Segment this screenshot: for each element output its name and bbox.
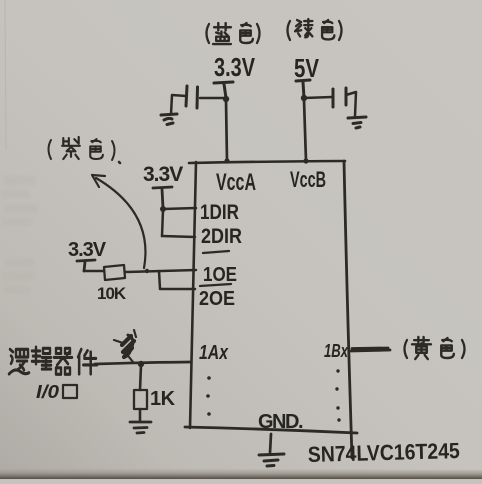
svg-text:3.3V: 3.3V [214, 52, 255, 82]
dots below 1Ax [206, 376, 211, 416]
svg-text:3.3V: 3.3V [68, 239, 107, 261]
wire terminal to resistor [84, 270, 104, 273]
junction node at blue supply [223, 96, 229, 102]
arrow to purple wire [96, 178, 145, 268]
svg-text:1Ax: 1Ax [199, 342, 229, 364]
wire blue supply to VCCA pin [226, 100, 227, 161]
wire junction to left capacitor [200, 97, 226, 100]
label (紫色) [49, 137, 121, 163]
wire junction to resistor 1K [140, 365, 141, 390]
capacitor C1 (left decoupling) [186, 86, 198, 108]
IC right edge [344, 161, 352, 458]
wire branch down to 2OE [159, 271, 195, 289]
svg-text:I/0: I/0 [36, 382, 59, 402]
junction node at 1DIR wire [160, 206, 166, 212]
IC bottom edge [185, 427, 357, 433]
wire GND pin to ground [270, 434, 271, 453]
svg-text:GND.: GND. [258, 411, 303, 433]
label 逻辑器件 [9, 347, 97, 374]
svg-text:2OE: 2OE [199, 288, 235, 310]
wire resistor to 1OE pin [125, 270, 196, 272]
faint bleed-through marks left side [2, 176, 38, 294]
IC left edge [190, 162, 196, 428]
junction node at VCCA [224, 158, 229, 163]
svg-text:VccA: VccA [216, 169, 256, 196]
wire to 2DIR pin [162, 236, 195, 237]
wire to 1DIR pin [163, 208, 196, 209]
label 口 [63, 385, 77, 398]
resistor R 10K body [104, 265, 125, 280]
svg-text:SN74LVC16T245: SN74LVC16T245 [307, 438, 460, 467]
junction node at green supply [301, 95, 307, 101]
svg-text:3.3V: 3.3V [143, 163, 183, 186]
svg-text:1Bx: 1Bx [324, 341, 349, 361]
wire junction to right capacitor [304, 97, 332, 98]
overline of 1OE [203, 251, 229, 253]
svg-text:1OE: 1OE [203, 264, 237, 286]
wire down to 2DIR level [162, 210, 163, 236]
IC top edge [189, 161, 345, 163]
wire capacitor to ground [346, 92, 356, 116]
overline of 2OE [200, 284, 231, 286]
ground (IC GND) [259, 454, 284, 466]
power terminal 3.3V (DIR) [153, 187, 172, 208]
ground (1K resistor) [130, 422, 151, 433]
resistor R 1K body [134, 390, 147, 409]
ground (right capacitor) [348, 117, 366, 128]
svg-text:1DIR: 1DIR [200, 201, 239, 224]
junction node at VCCB [303, 158, 308, 163]
wire 1Bx pin [351, 348, 390, 351]
power terminal 3.3V (OE) [77, 260, 95, 271]
label (绿色) [288, 19, 342, 40]
svg-text:1K: 1K [150, 388, 176, 410]
svg-text:VccB: VccB [290, 167, 326, 192]
svg-text:10K: 10K [97, 284, 127, 303]
junction node on OE wire [145, 269, 149, 273]
dots below 1Bx [335, 369, 340, 421]
ground (left capacitor) [161, 114, 177, 125]
arrowhead [92, 175, 105, 187]
label (黄色) [405, 337, 465, 359]
scribble mark above wire [114, 330, 136, 362]
junction node on 1Ax wire [138, 361, 144, 367]
svg-text:5V: 5V [294, 53, 320, 83]
faint paper crease left [5, 0, 6, 150]
power terminal 3.3V (blue) [214, 82, 233, 98]
power terminal 5V (green) [296, 80, 310, 98]
wire logic device to 1Ax pin [95, 362, 190, 364]
svg-text:2DIR: 2DIR [201, 225, 242, 248]
wire resistor to ground [139, 409, 142, 421]
wire capacitor to ground [171, 95, 186, 114]
wire green supply to VCCB pin [304, 100, 306, 161]
label (蓝色) [207, 23, 260, 44]
bottom photo edge band [0, 468, 482, 479]
capacitor C2 (right decoupling) [333, 88, 346, 107]
